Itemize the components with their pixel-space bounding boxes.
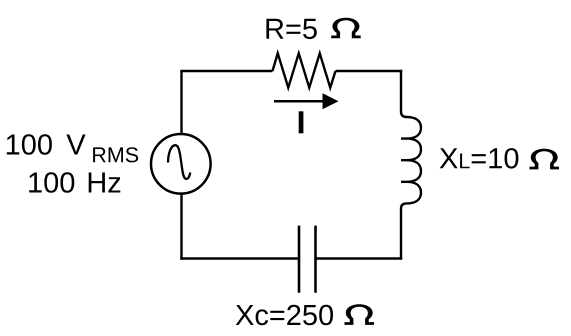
wire: left vertical, top segment (source to top rail): [180, 71, 182, 133]
label I current: [299, 111, 304, 133]
wire: bottom rail left of capacitor: [180, 257, 299, 259]
wire: left vertical, bottom segment (source to bottom rail): [180, 194, 182, 259]
AC voltage source circle: [151, 134, 211, 194]
label XL omega: [530, 149, 560, 170]
label 100 Hz: [29, 172, 120, 193]
capacitor left plate: [298, 226, 301, 293]
inductor XL (4 loops): [401, 112, 421, 209]
label RMS subscript: [93, 147, 138, 162]
current arrow head: [323, 93, 339, 109]
label R=5: [266, 19, 316, 39]
wire: top rail right of resistor: [336, 70, 403, 72]
wire: bottom rail right of capacitor: [316, 257, 403, 259]
capacitor right plate: [314, 226, 317, 293]
current arrow shaft: [274, 100, 324, 103]
wire: right vertical, top segment: [400, 70, 402, 112]
label XL=10: [440, 148, 519, 169]
wire: right vertical, bottom segment: [400, 208, 402, 260]
label R omega: [331, 18, 361, 39]
AC source sine squiggle: [168, 145, 190, 179]
resistor R=5 ohm: [273, 53, 336, 87]
wire: top rail left of resistor: [180, 70, 272, 72]
label Xc=250: [236, 305, 333, 326]
label 100 V: [7, 134, 86, 155]
label XC omega: [345, 304, 375, 325]
